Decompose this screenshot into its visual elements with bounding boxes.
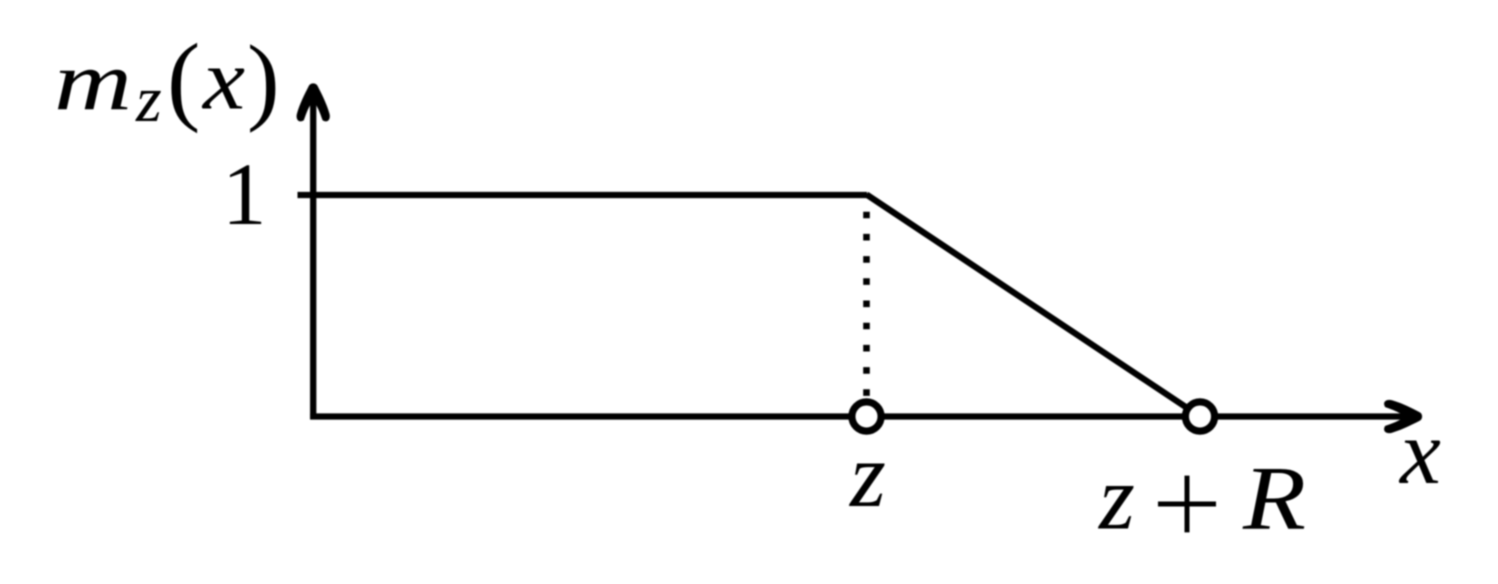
svg-text:z: z [135,63,162,136]
svg-text:(: ( [167,23,200,134]
svg-text:z: z [848,424,886,526]
svg-text:1: 1 [222,146,267,244]
svg-text:x: x [1398,401,1441,503]
svg-text:R: R [1242,448,1306,549]
svg-text:x: x [201,31,245,128]
svg-text:m: m [54,35,132,128]
svg-text:z: z [1097,447,1135,549]
svg-text:): ) [247,26,280,134]
